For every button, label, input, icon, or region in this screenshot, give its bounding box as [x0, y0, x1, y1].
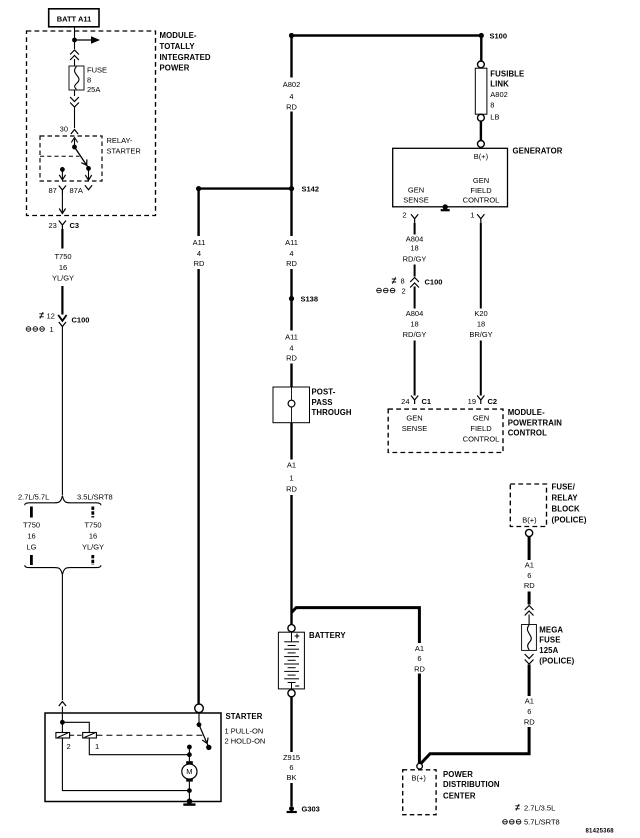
svg-text:87: 87	[49, 186, 57, 195]
SECTION: generator right	[377, 31, 563, 452]
wire A804 sense upper	[414, 223, 416, 235]
svg-text:C100: C100	[425, 277, 443, 286]
wire label A804 18 RD/GY (upper)	[403, 235, 427, 264]
svg-text:4: 4	[289, 249, 293, 258]
svg-text:2: 2	[402, 211, 406, 220]
wire motor to ground	[188, 782, 190, 802]
C100 variant tag 12	[39, 311, 55, 320]
wire label Z915 6 BK	[283, 753, 300, 782]
svg-text:STARTER: STARTER	[226, 712, 263, 721]
svg-text:A1: A1	[287, 461, 296, 470]
svg-text:125A: 125A	[539, 646, 558, 655]
starter internal junction	[60, 720, 65, 725]
fusible link label A802 8 LB	[490, 70, 524, 122]
coil linkage dashed	[70, 734, 203, 736]
svg-text:T750: T750	[84, 521, 101, 530]
PCM pin gen field control label	[463, 413, 500, 443]
relay dashed coil linkage	[40, 155, 79, 157]
svg-text:A11: A11	[285, 238, 298, 247]
svg-text:30: 30	[60, 125, 68, 134]
svg-text:FUSE: FUSE	[87, 66, 107, 75]
wire label A1 6 RD (police lower)	[524, 697, 535, 727]
generator box	[393, 148, 508, 207]
wire label A804 18 RD/GY (lower)	[403, 309, 427, 339]
svg-text:BLOCK: BLOCK	[552, 505, 580, 514]
wire brace to starter	[61, 575, 63, 700]
svg-text:S138: S138	[301, 295, 319, 304]
svg-text:CONTROL: CONTROL	[508, 429, 547, 438]
svg-text:1: 1	[289, 474, 293, 483]
post-pass through block	[273, 387, 310, 423]
wire stub LG lower	[30, 555, 33, 565]
svg-text:24: 24	[401, 397, 409, 406]
svg-text:18: 18	[410, 243, 418, 252]
starter B+ terminal circle	[195, 704, 204, 713]
svg-text:6: 6	[527, 571, 531, 580]
brace top	[25, 496, 101, 506]
svg-text:FIELD: FIELD	[470, 424, 492, 433]
svg-text:(POLICE): (POLICE)	[552, 516, 587, 525]
svg-text:1 PULL-ON: 1 PULL-ON	[225, 726, 264, 735]
svg-text:(POLICE): (POLICE)	[539, 656, 574, 665]
svg-text:M: M	[186, 767, 192, 776]
pin 87A connector chevron	[85, 185, 92, 190]
wire A802 down	[290, 36, 292, 78]
svg-text:T750: T750	[23, 521, 40, 530]
generator pin 2 connector	[411, 214, 418, 223]
inline connector chevrons below fuse	[70, 97, 79, 107]
fusible link terminal circle bottom	[478, 114, 485, 121]
C100 variant tag 8	[392, 277, 405, 286]
wire label T750 16 YL/GY	[52, 252, 74, 283]
switch contact dot	[206, 745, 211, 750]
fuse/relay block label	[552, 482, 587, 524]
wire T750 upper segment	[61, 229, 63, 249]
svg-text:6: 6	[417, 654, 421, 663]
svg-text:STARTER: STARTER	[107, 146, 142, 155]
module TIPM dashed box	[27, 31, 156, 216]
svg-text:A804: A804	[406, 309, 424, 318]
wire label T750 16 YL/GY	[82, 521, 104, 552]
node junction at top of TIPM	[72, 38, 77, 43]
svg-text:2: 2	[67, 742, 71, 751]
starter inlet connector chevron	[59, 702, 66, 707]
C100 variant tag 2	[377, 286, 406, 295]
svg-text:23: 23	[49, 221, 57, 230]
wire A1 1 RD down	[290, 423, 292, 460]
relay contact dot 87A	[86, 166, 91, 171]
svg-text:4: 4	[197, 249, 201, 258]
wire junction to coil 1	[62, 722, 89, 732]
svg-text:RD: RD	[414, 665, 425, 674]
svg-text:C1: C1	[422, 397, 432, 406]
wire to fuse	[74, 59, 76, 66]
wire top bus	[292, 34, 482, 36]
node S100	[479, 33, 484, 38]
svg-text:B(+): B(+)	[412, 774, 427, 783]
svg-text:RD/GY: RD/GY	[403, 254, 427, 263]
svg-text:8: 8	[87, 76, 91, 85]
wire A11 mid S142 to S138	[290, 189, 292, 236]
svg-text:16: 16	[59, 263, 67, 272]
motor feed dot lower	[187, 752, 192, 757]
svg-text:4: 4	[289, 92, 293, 101]
switch arm	[199, 725, 209, 748]
svg-text:RD: RD	[286, 102, 297, 111]
svg-text:GEN: GEN	[406, 413, 422, 422]
mega fuse 125A	[522, 625, 537, 651]
svg-text:Z915: Z915	[283, 753, 300, 762]
wire label A11 4 RD (mid)	[285, 238, 298, 268]
relay label	[107, 136, 142, 155]
svg-text:CONTROL: CONTROL	[463, 196, 500, 205]
svg-text:B(+): B(+)	[474, 152, 489, 161]
power distribution center label	[443, 770, 500, 800]
brace bottom	[25, 565, 101, 575]
svg-text:TOTALLY: TOTALLY	[160, 42, 196, 51]
wire B+ terminal to contact	[198, 713, 200, 725]
svg-text:RD: RD	[286, 485, 297, 494]
inline connector chevrons above fuse	[70, 50, 79, 60]
svg-text:8: 8	[401, 277, 405, 286]
svg-text:T750: T750	[54, 252, 71, 261]
generator case ground	[441, 204, 450, 210]
svg-text:12: 12	[47, 311, 55, 320]
PCM pin gen sense label	[402, 413, 427, 433]
svg-text:19: 19	[468, 397, 476, 406]
svg-text:RD: RD	[194, 259, 205, 268]
wire label K20 18 BR/GY	[469, 309, 492, 339]
svg-text:RD: RD	[524, 717, 535, 726]
wire 87 to C3	[59, 194, 65, 214]
svg-text:POWERTRAIN: POWERTRAIN	[508, 419, 563, 428]
svg-text:18: 18	[477, 320, 485, 329]
wire coil1 to motor top	[89, 738, 189, 755]
SECTION: top-left TIPM	[27, 9, 211, 216]
svg-text:1: 1	[470, 211, 474, 220]
relay switch arm	[75, 147, 89, 168]
svg-text:FUSE/: FUSE/	[552, 482, 576, 491]
svg-text:FUSIBLE: FUSIBLE	[490, 70, 524, 79]
svg-text:A11: A11	[285, 333, 298, 342]
svg-text:BR/GY: BR/GY	[469, 330, 492, 339]
wire A804 sense lower	[414, 287, 416, 309]
svg-text:8: 8	[490, 100, 494, 109]
svg-text:K20: K20	[474, 309, 487, 318]
connector C1 symbol	[411, 396, 418, 405]
wire A1 police upper	[528, 537, 531, 560]
svg-text:2: 2	[402, 286, 406, 295]
mega fuse inlet chevrons	[525, 606, 534, 616]
PDC terminal circle	[417, 763, 423, 769]
svg-text:RD: RD	[524, 581, 535, 590]
svg-text:A1: A1	[525, 561, 534, 570]
svg-text:B(+): B(+)	[522, 515, 537, 524]
battery feed label BATT A11	[49, 9, 99, 27]
svg-text:C100: C100	[72, 316, 90, 325]
svg-text:BK: BK	[286, 773, 296, 782]
relay pin 87 exit arrow	[59, 169, 65, 179]
svg-text:S142: S142	[302, 185, 320, 194]
fuse/relay block police dashed box	[510, 484, 546, 527]
wire motor feed	[188, 747, 190, 761]
connector C3 symbol	[59, 221, 66, 230]
wire stub T750 YL/GY upper	[91, 507, 94, 518]
starter coil 1	[83, 733, 99, 751]
switch arm arrowhead	[202, 738, 210, 745]
module TIPM label	[160, 31, 211, 73]
svg-text:2.7L/5.7L: 2.7L/5.7L	[18, 493, 49, 502]
wire A11 left branch down	[197, 189, 199, 236]
svg-text:YL/GY: YL/GY	[82, 543, 104, 552]
wire stub YL/GY lower	[91, 555, 94, 565]
wire to mega fuse	[528, 615, 530, 625]
legend variant 5.7L/SRT8	[503, 818, 560, 827]
wire label A1 6 RD (branch)	[414, 644, 425, 674]
svg-text:2.7L/3.5L: 2.7L/3.5L	[524, 803, 555, 812]
wire S100 to fusible link	[480, 36, 482, 62]
pin 87 connector	[59, 186, 66, 195]
connector C100 arrowhead	[58, 315, 66, 321]
svg-text:GENERATOR: GENERATOR	[513, 147, 563, 156]
svg-text:1: 1	[95, 742, 99, 751]
wire A1 6 RD branch to PDC	[292, 608, 420, 643]
starter label	[225, 712, 266, 746]
svg-text:FUSE: FUSE	[539, 636, 560, 645]
svg-text:3.5L/SRT8: 3.5L/SRT8	[77, 493, 113, 502]
node S138	[289, 296, 294, 301]
svg-text:THROUGH: THROUGH	[312, 408, 352, 417]
fusible link terminal circle top	[478, 61, 485, 68]
generator B+ terminal circle	[478, 141, 485, 148]
wire Z915 battery to ground	[290, 697, 292, 752]
starter case ground	[183, 799, 195, 805]
svg-text:DISTRIBUTION: DISTRIBUTION	[443, 780, 500, 789]
svg-text:CENTER: CENTER	[443, 791, 476, 800]
svg-text:C3: C3	[70, 221, 80, 230]
power distribution center dashed box	[403, 770, 436, 815]
relay common arrow up	[71, 138, 77, 148]
SECTION: police / PDC	[403, 482, 587, 814]
motor feed dot upper	[187, 745, 192, 750]
generator pin 1 connector	[477, 214, 484, 223]
svg-text:A1: A1	[415, 644, 424, 653]
svg-text:CONTROL: CONTROL	[463, 435, 500, 444]
ground G303	[287, 806, 297, 812]
post-pass through label	[312, 388, 352, 417]
svg-text:5.7L/SRT8: 5.7L/SRT8	[524, 818, 560, 827]
module powertrain control label	[508, 408, 563, 438]
connector C2 symbol	[477, 396, 484, 405]
svg-text:A11: A11	[193, 238, 206, 247]
wire label A1 1 RD	[286, 461, 297, 494]
SECTION: legend	[503, 803, 615, 834]
svg-text:SENSE: SENSE	[402, 424, 427, 433]
svg-text:BATT A11: BATT A11	[57, 15, 92, 24]
svg-text:SENSE: SENSE	[403, 195, 428, 204]
generator pin gen sense label	[403, 186, 428, 205]
wire label A1 6 RD (police upper)	[524, 561, 535, 591]
wire to relay pin 30	[74, 107, 76, 128]
svg-text:MODULE-: MODULE-	[508, 408, 545, 417]
svg-text:2 HOLD-ON: 2 HOLD-ON	[225, 737, 266, 746]
legend variant 2.7L/3.5L	[515, 803, 555, 812]
svg-text:LG: LG	[26, 543, 36, 552]
svg-text:GEN: GEN	[408, 186, 424, 195]
svg-text:LINK: LINK	[490, 80, 509, 89]
svg-text:BATTERY: BATTERY	[309, 631, 346, 640]
fusible link body	[475, 68, 487, 114]
svg-text:6: 6	[289, 763, 293, 772]
generator pin gen field control label	[463, 176, 500, 205]
svg-text:PASS: PASS	[312, 398, 333, 407]
node S142	[289, 186, 294, 191]
connector C100 chevron	[59, 322, 66, 327]
connector C100 chevrons (right)	[410, 278, 419, 288]
wire A11 S138 to post-pass	[290, 299, 292, 331]
node junction left of S142	[196, 186, 201, 191]
svg-text:POWER: POWER	[160, 64, 190, 73]
svg-text:18: 18	[410, 320, 418, 329]
svg-text:1: 1	[50, 325, 54, 334]
node bus left junction	[289, 33, 294, 38]
starter box	[45, 713, 221, 802]
wire K20 field control	[480, 223, 482, 309]
svg-text:YL/GY: YL/GY	[52, 274, 74, 283]
battery B1	[278, 625, 304, 697]
relay-starter dashed box	[40, 136, 102, 181]
svg-text:16: 16	[89, 532, 97, 541]
wire label T750 16 LG	[23, 521, 40, 552]
svg-text:S100: S100	[490, 31, 508, 40]
pin 30 connector chevron	[71, 130, 78, 135]
fuse value label	[87, 66, 107, 95]
svg-text:RELAY-: RELAY-	[107, 136, 133, 145]
svg-text:RD: RD	[286, 354, 297, 363]
wire fusible link to generator	[480, 121, 482, 140]
SECTION: middle column	[193, 33, 482, 813]
svg-text:MODULE-: MODULE-	[160, 31, 197, 40]
svg-text:87A: 87A	[70, 186, 83, 195]
relay pin 87A exit arrow	[85, 168, 91, 180]
wire S142 bus	[199, 187, 292, 189]
off-page arrow right	[75, 36, 101, 44]
C100 variant tag 1	[26, 325, 53, 334]
svg-text:INTEGRATED: INTEGRATED	[160, 53, 211, 62]
svg-text:POWER: POWER	[443, 770, 473, 779]
svg-text:POST-: POST-	[312, 388, 336, 397]
svg-text:GEN: GEN	[473, 413, 489, 422]
module powertrain control dashed box	[388, 409, 503, 452]
svg-text:A802: A802	[490, 90, 508, 99]
wire coil2 to motor bottom	[62, 738, 189, 791]
fuse/relay block terminal circle	[526, 529, 533, 536]
svg-text:6: 6	[527, 707, 531, 716]
relay contact dot 87	[60, 167, 65, 172]
svg-text:FIELD: FIELD	[470, 186, 492, 195]
mega fuse outlet chevrons	[525, 654, 534, 664]
wire into starter	[61, 707, 63, 723]
wire T750 lower segment	[61, 286, 63, 315]
wire A1 police lower	[528, 665, 531, 697]
svg-text:C2: C2	[488, 397, 498, 406]
wire below fuse	[74, 90, 76, 96]
svg-text:LB: LB	[490, 113, 499, 122]
motor M1	[182, 761, 197, 781]
starter coil 2	[56, 722, 71, 751]
wire label A802 4 RD	[283, 80, 301, 111]
svg-text:RD: RD	[286, 259, 297, 268]
mega fuse label	[539, 625, 574, 665]
svg-text:G303: G303	[302, 804, 320, 813]
svg-text:4: 4	[289, 343, 293, 352]
svg-text:RD/GY: RD/GY	[403, 330, 427, 339]
svg-text:RELAY: RELAY	[552, 493, 579, 502]
svg-text:GEN: GEN	[473, 176, 489, 185]
svg-text:81425368: 81425368	[586, 829, 615, 835]
wire label A11 4 RD (lower)	[285, 333, 298, 363]
svg-text:25A: 25A	[87, 85, 100, 94]
svg-text:A802: A802	[283, 80, 301, 89]
wire label A11 4 RD (left)	[193, 238, 206, 268]
switch fixed contact dot	[197, 722, 202, 727]
fuse F (25A)	[69, 66, 84, 90]
motor bottom junction dot	[187, 788, 192, 793]
svg-text:A804: A804	[406, 235, 424, 244]
svg-text:MEGA: MEGA	[539, 625, 563, 634]
svg-text:16: 16	[27, 532, 35, 541]
wire C100 to engine-variant brace	[61, 327, 63, 495]
SECTION: left column to starter	[18, 221, 265, 805]
wire stub T750 LG upper	[30, 507, 33, 518]
relay pivot dot	[72, 145, 77, 150]
svg-text:A1: A1	[525, 697, 534, 706]
wire BATT A11 down	[74, 26, 76, 49]
